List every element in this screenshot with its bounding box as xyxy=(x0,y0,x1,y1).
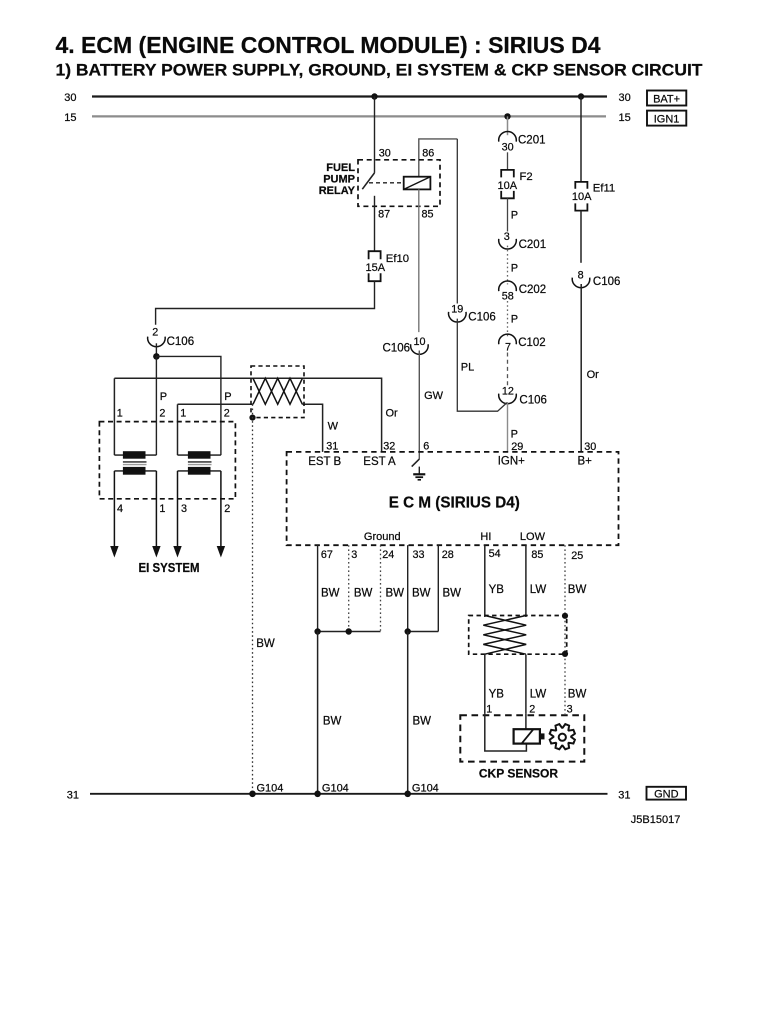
wire YB ECM pin 54 to twist xyxy=(484,545,486,617)
svg-text:BW: BW xyxy=(413,716,432,728)
wire P to coil1 pin2 xyxy=(155,356,157,455)
svg-text:32: 32 xyxy=(383,441,395,453)
wire BW pin 33 xyxy=(407,545,409,631)
svg-text:85: 85 xyxy=(531,549,543,561)
junction dot pin3 bus xyxy=(346,628,352,634)
svg-text:GW: GW xyxy=(424,390,444,402)
svg-text:1: 1 xyxy=(180,408,186,420)
CKP twisted pair dashed box xyxy=(469,616,567,655)
CKP reluctor gear xyxy=(550,724,575,749)
CKP twisted pair winding xyxy=(483,616,526,655)
svg-text:C106: C106 xyxy=(593,276,621,288)
svg-text:BW: BW xyxy=(443,588,462,600)
wire EST A top line to coil1 pin1 xyxy=(253,378,382,452)
svg-text:Ground: Ground xyxy=(364,531,401,543)
wire relay pin 85 down (GW) xyxy=(418,189,420,332)
ECM (SIRIUS D4) dashed box xyxy=(287,452,619,545)
junction G104 #1 xyxy=(249,783,283,798)
svg-text:P: P xyxy=(160,391,167,403)
svg-text:FUEL: FUEL xyxy=(326,162,355,174)
fuse Ef11 10A xyxy=(572,182,615,211)
wire relay pin 87 down xyxy=(374,196,376,251)
svg-text:15A: 15A xyxy=(366,262,386,274)
connector C106 pin 12 xyxy=(499,385,547,406)
svg-text:HI: HI xyxy=(480,531,491,543)
svg-text:6: 6 xyxy=(423,441,429,453)
svg-text:P: P xyxy=(511,263,518,275)
wire PL from C106-19 to C106-12 xyxy=(457,319,507,412)
ground bus segment 2 xyxy=(408,631,439,633)
noise suppressor dashed box xyxy=(251,366,304,418)
svg-text:C102: C102 xyxy=(518,337,546,349)
svg-text:BW: BW xyxy=(256,638,275,650)
svg-text:15: 15 xyxy=(64,112,76,124)
suppressor twisted pair winding xyxy=(253,378,302,404)
ground bus segment 1 xyxy=(318,631,381,633)
svg-text:4. ECM (ENGINE CONTROL MODULE): 4. ECM (ENGINE CONTROL MODULE) : SIRIUS … xyxy=(56,32,601,58)
svg-text:Or: Or xyxy=(386,408,399,420)
svg-text:24: 24 xyxy=(382,549,394,561)
svg-text:86: 86 xyxy=(422,148,434,160)
CKP pickup coil element xyxy=(514,729,545,743)
svg-text:33: 33 xyxy=(413,549,425,561)
svg-text:2: 2 xyxy=(224,503,230,515)
svg-text:1: 1 xyxy=(159,503,165,515)
svg-text:58: 58 xyxy=(502,291,514,303)
junction node on suppressor shield xyxy=(249,415,255,421)
svg-text:30: 30 xyxy=(502,142,514,154)
svg-text:P: P xyxy=(511,210,518,222)
wire BW shield drain (dotted) to G104 xyxy=(252,404,254,794)
wire BW bus1 to G104 xyxy=(317,632,319,794)
svg-text:F2: F2 xyxy=(520,171,533,183)
relay label FUEL PUMP RELAY xyxy=(319,162,356,197)
ground rail 31 xyxy=(90,793,608,795)
svg-text:EI SYSTEM: EI SYSTEM xyxy=(139,560,200,575)
CKP sensor dashed box xyxy=(460,715,584,761)
svg-text:C106: C106 xyxy=(167,336,195,348)
svg-text:C106: C106 xyxy=(519,394,547,406)
svg-text:4: 4 xyxy=(117,503,123,515)
svg-text:IGN+: IGN+ xyxy=(498,456,525,468)
EI system dashed box xyxy=(99,422,235,499)
svg-text:BW: BW xyxy=(412,588,431,600)
svg-text:19: 19 xyxy=(451,303,463,315)
svg-text:LW: LW xyxy=(530,584,547,596)
wire Or to ECM pin 30 B+ xyxy=(580,284,582,452)
svg-text:31: 31 xyxy=(67,789,79,801)
wire LW ECM pin 85 to twist xyxy=(525,545,527,617)
svg-text:1) BATTERY POWER SUPPLY, GROUN: 1) BATTERY POWER SUPPLY, GROUND, EI SYST… xyxy=(56,61,704,80)
svg-text:C201: C201 xyxy=(518,135,546,147)
svg-text:EST A: EST A xyxy=(363,456,396,468)
svg-text:3: 3 xyxy=(351,549,357,561)
svg-text:30: 30 xyxy=(619,92,631,104)
wire Ef11 to C106-8 xyxy=(580,211,582,263)
svg-text:G104: G104 xyxy=(322,783,349,795)
svg-text:2: 2 xyxy=(152,327,158,339)
junction node below C106-2 xyxy=(153,353,160,360)
svg-text:3: 3 xyxy=(567,704,573,716)
svg-text:28: 28 xyxy=(442,549,454,561)
wire C201-30 to F2 xyxy=(507,152,509,170)
wire C202-58 to C102-7 (dotted) xyxy=(507,301,509,337)
relay coil box xyxy=(404,177,431,190)
wire F2 to C201-3 xyxy=(507,198,509,231)
EI output arrow 2 xyxy=(152,471,160,558)
svg-text:C106: C106 xyxy=(468,311,496,323)
svg-text:31: 31 xyxy=(618,789,630,801)
connector C102 pin 7 xyxy=(499,334,546,353)
svg-text:P: P xyxy=(511,428,518,440)
svg-text:30: 30 xyxy=(379,148,391,160)
svg-text:RELAY: RELAY xyxy=(319,185,356,197)
wire PL branch vertical to C106-19 xyxy=(456,139,458,304)
CKP internal wiring xyxy=(485,714,527,751)
svg-text:10: 10 xyxy=(413,336,425,348)
bus 15 wire xyxy=(92,115,606,117)
EI output arrow 3 xyxy=(173,471,181,558)
svg-text:W: W xyxy=(328,421,339,433)
svg-text:BAT+: BAT+ xyxy=(653,93,680,105)
svg-text:P: P xyxy=(511,313,518,325)
wire BW bus2 to G104 xyxy=(407,632,409,794)
svg-text:LOW: LOW xyxy=(520,531,546,543)
svg-text:EST B: EST B xyxy=(308,456,341,468)
connector C106 pin 2 xyxy=(148,327,195,354)
svg-text:BW: BW xyxy=(568,584,587,596)
connector C201 pin 3 xyxy=(499,231,546,251)
junction on bus 30 feeding relay xyxy=(371,93,377,99)
fuse Ef10 15A xyxy=(366,251,410,281)
junction dot shield top xyxy=(562,613,568,619)
junction on bus 15 feeding C201 xyxy=(504,113,510,119)
wire Ef10 to C106-2 (down, left, down) xyxy=(156,281,375,325)
wire C106-12 to ECM pin 29 xyxy=(507,402,509,452)
wire relay 86 feed: up and over to PL branch xyxy=(419,139,458,177)
wire LW twist to CKP pin 2 xyxy=(525,655,527,714)
svg-text:GND: GND xyxy=(654,789,679,801)
svg-text:C201: C201 xyxy=(519,239,547,251)
svg-text:10A: 10A xyxy=(572,191,592,203)
relay K: fuel pump relay dashed box xyxy=(358,160,440,207)
svg-text:BW: BW xyxy=(321,588,340,600)
svg-text:67: 67 xyxy=(321,549,333,561)
svg-text:Or: Or xyxy=(587,369,600,381)
svg-text:12: 12 xyxy=(502,385,514,397)
connector C106 pin 19 xyxy=(449,303,496,323)
svg-text:54: 54 xyxy=(489,548,501,560)
svg-text:87: 87 xyxy=(378,209,390,221)
svg-text:Ef10: Ef10 xyxy=(386,253,409,265)
svg-text:10A: 10A xyxy=(498,180,518,192)
connector C106 pin 8 xyxy=(572,269,620,288)
wire C102-7 to C106-12 (dashed) xyxy=(507,353,509,387)
svg-text:YB: YB xyxy=(489,688,505,700)
svg-text:8: 8 xyxy=(578,269,584,281)
svg-text:29: 29 xyxy=(511,441,523,453)
connector C201 pin 30 xyxy=(499,131,546,153)
connector C202 pin 58 xyxy=(499,281,547,303)
node IGN1 box xyxy=(647,111,686,126)
node GND box xyxy=(647,787,687,801)
relay switch contact arm xyxy=(362,173,374,189)
svg-text:31: 31 xyxy=(326,441,338,453)
junction G104 #3 xyxy=(404,783,438,798)
wire BW pin 67 xyxy=(317,545,319,631)
junction dot pin33 bus xyxy=(405,628,411,634)
svg-text:IGN1: IGN1 xyxy=(654,113,680,125)
svg-text:1: 1 xyxy=(486,704,492,716)
EI output arrow 1 xyxy=(110,471,118,558)
wire C201-3 to C202-58 (dotted) xyxy=(507,246,509,285)
wire P to coil2 pin2 xyxy=(156,356,221,455)
svg-text:B+: B+ xyxy=(578,456,593,468)
node BAT+ box xyxy=(647,91,686,106)
svg-text:PL: PL xyxy=(461,361,474,373)
svg-text:7: 7 xyxy=(505,341,511,353)
svg-text:30: 30 xyxy=(584,441,596,453)
svg-text:2: 2 xyxy=(224,408,230,420)
svg-text:85: 85 xyxy=(422,209,434,221)
svg-text:3: 3 xyxy=(504,231,510,243)
junction G104 #2 xyxy=(314,783,349,798)
svg-text:BW: BW xyxy=(323,716,342,728)
svg-text:BW: BW xyxy=(386,588,405,600)
wire bus30 to relay pin 30 xyxy=(374,97,376,173)
svg-text:P: P xyxy=(224,391,231,403)
svg-text:2: 2 xyxy=(529,704,535,716)
svg-text:LW: LW xyxy=(530,688,547,700)
svg-text:3: 3 xyxy=(181,503,187,515)
bus 30 wire xyxy=(92,95,607,97)
svg-text:PUMP: PUMP xyxy=(323,174,355,186)
wire BW pin 3 (dotted) xyxy=(348,545,350,631)
svg-text:C106: C106 xyxy=(383,343,411,355)
wire GW to ECM pin 6 xyxy=(418,351,420,460)
svg-text:BW: BW xyxy=(354,588,373,600)
svg-text:30: 30 xyxy=(64,92,76,104)
svg-text:G104: G104 xyxy=(412,783,439,795)
junction on bus 30 feeding Ef11 xyxy=(578,93,584,99)
svg-text:1: 1 xyxy=(117,408,123,420)
svg-text:E C M (SIRIUS D4): E C M (SIRIUS D4) xyxy=(389,494,520,511)
svg-text:J5B15017: J5B15017 xyxy=(631,814,681,826)
svg-text:25: 25 xyxy=(571,550,583,562)
wire EST B bottom line to coil2 pin1 xyxy=(302,404,322,452)
fuse F2 10A xyxy=(498,170,533,198)
junction dot pin67 bus xyxy=(314,628,320,634)
EI output arrow 4 xyxy=(217,471,225,558)
ignition coil 1 (transformer) xyxy=(114,451,156,474)
relay actuator dashed link xyxy=(369,182,404,184)
wire GW C106-10 section xyxy=(383,336,429,355)
svg-text:C202: C202 xyxy=(519,284,547,296)
svg-text:G104: G104 xyxy=(257,783,284,795)
wire bus30 to Ef11 xyxy=(580,97,582,182)
svg-text:YB: YB xyxy=(489,584,505,596)
svg-text:Ef11: Ef11 xyxy=(593,183,615,195)
ignition coil 2 (transformer) xyxy=(178,451,221,474)
svg-text:CKP SENSOR: CKP SENSOR xyxy=(479,767,558,781)
svg-text:2: 2 xyxy=(159,408,165,420)
svg-text:15: 15 xyxy=(619,112,631,124)
wire BW pin 24 (dotted) xyxy=(380,545,382,631)
junction dot shield bottom xyxy=(562,651,568,657)
wire BW pin 28 xyxy=(437,545,439,631)
ECM internal ground at pin 6 xyxy=(412,459,426,480)
wire bus15 to C201-30 xyxy=(507,116,509,135)
wire YB twist to CKP pin 1 xyxy=(484,654,486,714)
svg-text:BW: BW xyxy=(568,688,587,700)
wire BW ECM pin 25 (dotted shield) xyxy=(564,545,566,714)
